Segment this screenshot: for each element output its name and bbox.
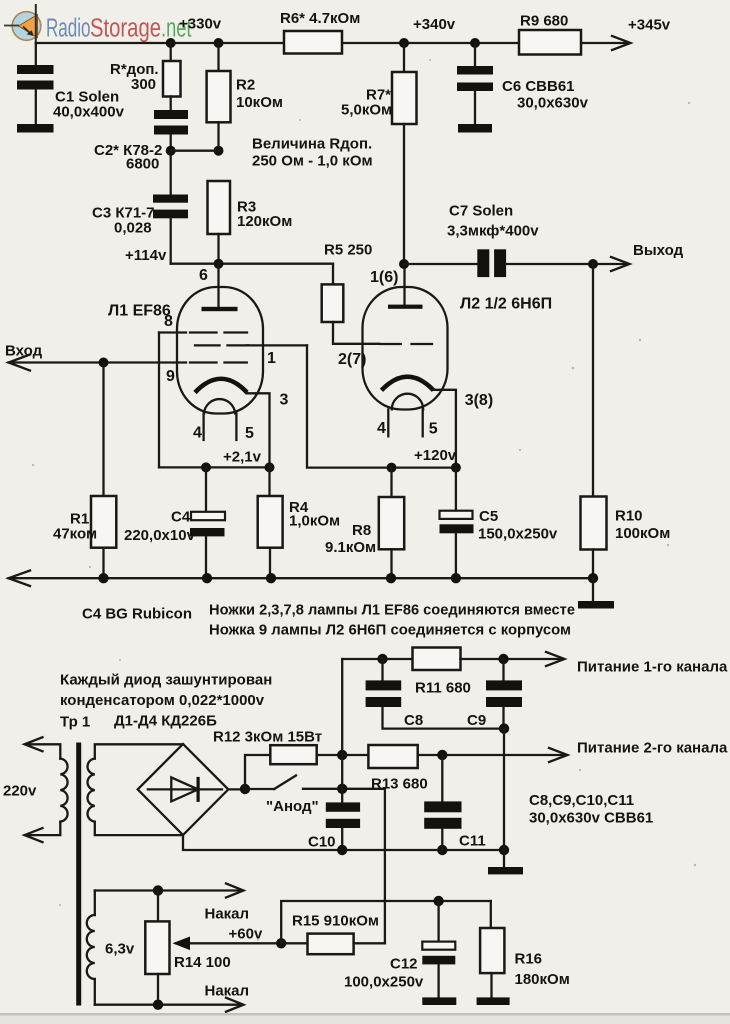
wire output line right [506, 263, 627, 265]
svg-text:Тр 1: Тр 1 [60, 714, 90, 731]
svg-text:1,0кОм: 1,0кОм [289, 513, 340, 530]
svg-text:47ком: 47ком [53, 526, 97, 543]
wire pin 3(8) hook Л2 [433, 390, 456, 468]
grid Л2 [380, 343, 432, 345]
wire PSU minus rail [183, 835, 504, 850]
transformer T1 heater winding 6.3v [94, 891, 96, 916]
pin 1(6) wire and anode Л2 [403, 264, 405, 305]
wire pin8 left drop [158, 333, 160, 468]
node C8-C9 bottom junction [499, 723, 509, 733]
svg-text:C5: C5 [479, 508, 498, 525]
svg-text:Накал: Накал [205, 906, 250, 923]
svg-text:40,0x400v: 40,0x400v [53, 104, 125, 121]
svg-text:180кОм: 180кОм [515, 971, 570, 988]
node +330v junction 2 [214, 38, 224, 48]
svg-text:5: 5 [429, 421, 438, 438]
wire heater top [95, 889, 242, 891]
resistor Rdop [170, 43, 172, 61]
svg-text:C12: C12 [390, 956, 418, 973]
svg-text:+345v: +345v [628, 17, 671, 34]
ground R16 [477, 997, 510, 1005]
svg-text:+2,1v: +2,1v [223, 449, 262, 466]
svg-text:Д1-Д4 КД226Б: Д1-Д4 КД226Б [114, 713, 217, 730]
resistor R2 [217, 43, 219, 71]
svg-text:"Анод": "Анод" [266, 798, 319, 815]
ground under R10 [592, 578, 594, 601]
capacitor C5 [455, 468, 457, 511]
svg-text:C7 Solen: C7 Solen [449, 203, 513, 220]
svg-text:6,3v: 6,3v [105, 941, 135, 958]
svg-text:конденсатором 0,022*1000v: конденсатором 0,022*1000v [60, 692, 265, 709]
svg-text:Питание 2-го канала: Питание 2-го канала [577, 740, 728, 757]
svg-text:30,0x630v: 30,0x630v [517, 95, 589, 112]
svg-text:+330v: +330v [179, 16, 222, 33]
svg-text:150,0x250v: 150,0x250v [478, 526, 558, 543]
ground C1 [17, 124, 54, 133]
svg-text:2(7): 2(7) [338, 351, 366, 368]
svg-text:220,0x10v: 220,0x10v [124, 527, 196, 544]
ground C6 [458, 124, 492, 133]
svg-text:Величина Rдоп.: Величина Rдоп. [252, 136, 372, 153]
svg-text:C11: C11 [459, 833, 486, 850]
scan artifact bottom [0, 1013, 730, 1016]
wire bridge out [228, 788, 245, 790]
node R12-R13 junction [337, 750, 347, 760]
transformer T1 primary [26, 744, 60, 758]
capacitor C12 [437, 901, 439, 942]
grid row2 Л1 pin1 [195, 344, 248, 346]
arrow output [611, 257, 630, 271]
svg-text:C10: C10 [308, 834, 336, 851]
svg-text:1: 1 [267, 350, 276, 367]
capacitor C3 [170, 151, 172, 195]
svg-text:8: 8 [164, 313, 173, 330]
cathode Л2 [382, 377, 434, 391]
arrow +345v [612, 36, 631, 50]
svg-text:6: 6 [199, 267, 208, 284]
arrow heater bottom [226, 998, 244, 1012]
svg-text:4: 4 [377, 420, 386, 437]
capacitor C6 [470, 38, 480, 48]
svg-text:120кОм: 120кОм [237, 213, 292, 230]
svg-text:Каждый диод зашунтирован: Каждый диод зашунтирован [60, 672, 272, 689]
wire top rail mid [342, 42, 519, 44]
transformer T1 core [76, 743, 81, 1006]
svg-text:R12 3кОм 15Вт: R12 3кОм 15Вт [213, 729, 322, 746]
resistor R11 [413, 648, 461, 671]
svg-text:300: 300 [131, 76, 156, 93]
resistor R12 [245, 755, 270, 789]
grid row3 Л1 input grid [190, 361, 247, 363]
bridge rectifier D1-D4 [138, 744, 229, 835]
svg-text:Л1 EF86: Л1 EF86 [108, 303, 171, 320]
svg-text:R9 680: R9 680 [520, 13, 568, 30]
wire +114v node [171, 263, 333, 265]
wire main vertical [341, 659, 343, 789]
pin 6 wire and anode Л1 [217, 264, 219, 307]
arrow channel 2 [549, 748, 568, 762]
svg-text:R13 680: R13 680 [371, 776, 428, 793]
svg-text:R8: R8 [352, 522, 371, 539]
svg-text:C4 BG Rubicon: C4 BG Rubicon [82, 606, 192, 623]
wire pin1 drop to +120 rail [307, 345, 456, 467]
wire rail2 channel 2 [342, 754, 368, 756]
resistor R8 [390, 468, 392, 497]
svg-text:3: 3 [280, 392, 289, 409]
svg-text:R5 250: R5 250 [324, 242, 372, 259]
transformer T1 secondary HV [95, 744, 183, 758]
svg-text:R15 910кОм: R15 910кОм [292, 913, 379, 930]
svg-text:+120v: +120v [414, 447, 457, 464]
svg-text:Radio: Radio [46, 15, 91, 43]
node anode supply junction [399, 259, 409, 269]
resistor R7 [399, 38, 409, 48]
node +60v junction [276, 938, 286, 948]
resistor R4 [268, 467, 270, 496]
capacitor C10 [341, 789, 343, 803]
node +330v junction 1 [166, 38, 176, 48]
tube U1 EF86 envelope [177, 287, 263, 414]
svg-text:Питание 1-го канала: Питание 1-го канала [577, 659, 728, 676]
node pin6 junction [214, 259, 224, 269]
ground C12 [422, 997, 456, 1005]
pin 4 Л1 [202, 413, 204, 440]
wire +60v node riser [281, 901, 491, 943]
svg-text:R16: R16 [515, 951, 543, 968]
cathode Л1 [195, 379, 247, 393]
wire output drop to R10 [592, 264, 594, 497]
svg-text:100,0x250v: 100,0x250v [344, 974, 424, 991]
wire C2 to R3 [171, 150, 219, 152]
wire output line left [404, 263, 477, 265]
logo RadioStorage.net [4, 4, 192, 43]
svg-text:5: 5 [245, 425, 254, 442]
resistor R15 [281, 942, 307, 944]
capacitor C7 [477, 249, 489, 277]
resistor R6 [284, 31, 342, 54]
svg-text:9: 9 [166, 368, 175, 385]
svg-text:Storage: Storage [90, 15, 161, 43]
svg-text:5,0кОм: 5,0кОм [341, 102, 392, 119]
svg-text:3(8): 3(8) [465, 392, 493, 409]
wire rail1 channel 1 [342, 658, 412, 660]
pin 5 Л2 [422, 409, 424, 436]
svg-text:C9: C9 [467, 712, 486, 729]
grid g2 row1 Л1 [159, 331, 186, 333]
svg-text:C8,C9,C10,C11: C8,C9,C10,C11 [529, 792, 634, 809]
resistor R14 [157, 891, 159, 922]
svg-text:100кОм: 100кОм [615, 525, 670, 542]
resistor R1 [102, 363, 104, 497]
resistor R16 [490, 901, 492, 928]
capacitor C1 [35, 43, 37, 65]
node C2-R3 junction [166, 146, 176, 156]
svg-text:R14 100: R14 100 [174, 954, 231, 971]
svg-text:Выход: Выход [633, 242, 684, 259]
wire heater bottom [95, 1004, 242, 1006]
wire switch drop [384, 789, 386, 944]
arrow heater top [226, 884, 244, 898]
node C8 C9 taps [377, 654, 387, 664]
arrow ground rail left [9, 571, 31, 587]
wire C9 drop to rail [503, 729, 505, 850]
wire R14 wiper +60v [176, 942, 281, 944]
svg-text:0,028: 0,028 [114, 220, 152, 237]
capacitor C9 [502, 659, 504, 680]
pin 5 Л1 [235, 413, 237, 440]
node +120v junctions [387, 463, 397, 473]
diode symbol [148, 788, 222, 790]
svg-text:30,0x630v СВВ61: 30,0x630v СВВ61 [529, 810, 653, 827]
pin 4 Л2 [387, 409, 389, 436]
resistor R13 [368, 745, 417, 768]
svg-text:Л2 1/2 6Н6П: Л2 1/2 6Н6П [460, 296, 552, 313]
capacitor C8 [381, 659, 383, 680]
svg-text:1(6): 1(6) [370, 269, 398, 286]
svg-text:10кОм: 10кОм [236, 94, 283, 111]
svg-text:R10: R10 [615, 508, 643, 525]
resistor R5 [332, 264, 334, 285]
svg-text:3,3мкф*400v: 3,3мкф*400v [447, 223, 539, 240]
svg-text:+340v: +340v [413, 16, 456, 33]
resistor R3 [208, 181, 231, 234]
svg-text:Ножки 2,3,7,8 лампы Л1 EF86 со: Ножки 2,3,7,8 лампы Л1 EF86 соединяются … [209, 602, 575, 619]
capacitor C2 [154, 110, 188, 119]
node rail junctions [98, 573, 108, 583]
svg-text:6800: 6800 [126, 156, 159, 173]
resistor R10 [581, 497, 607, 550]
svg-text:R11 680: R11 680 [415, 680, 471, 697]
node output junction [588, 259, 598, 269]
ground PSU [503, 850, 505, 867]
svg-text:Ножка 9 лампы Л2 6Н6П соединяе: Ножка 9 лампы Л2 6Н6П соединяется с корп… [209, 622, 571, 639]
wire top rail [36, 42, 284, 44]
svg-text:C4: C4 [171, 509, 191, 526]
scan speckles [32, 59, 696, 941]
svg-text:C6 СВВ61: C6 СВВ61 [502, 78, 575, 95]
wire pin3 hook Л1 [247, 393, 270, 467]
svg-text:+114v: +114v [125, 247, 167, 264]
svg-text:+60v: +60v [229, 926, 263, 943]
heater dome Л1 [204, 399, 235, 413]
heater dome Л2 [392, 394, 423, 410]
wire top rail right [581, 42, 628, 44]
svg-text:C8: C8 [404, 712, 423, 729]
svg-text:R2: R2 [236, 77, 255, 94]
tube U2 6N6P envelope [363, 287, 448, 410]
wire ground rail [9, 577, 594, 579]
svg-text:9.1кОм: 9.1кОм [325, 539, 376, 556]
node switch junction [337, 784, 347, 794]
resistor R9 [519, 30, 581, 55]
wire cathode rail +2.1v [159, 466, 270, 468]
svg-text:250 Ом - 1,0 кОм: 250 Ом - 1,0 кОм [252, 153, 373, 170]
svg-text:4: 4 [193, 425, 202, 442]
capacitor C4 [205, 467, 207, 512]
node C11 tap [437, 750, 447, 760]
arrow channel 1 [546, 652, 565, 666]
svg-text:220v: 220v [3, 783, 37, 800]
switch Anod [245, 788, 274, 790]
svg-text:Накал: Накал [205, 983, 250, 1000]
svg-text:R6* 4.7кОм: R6* 4.7кОм [280, 10, 360, 27]
capacitor C11 [441, 755, 443, 801]
